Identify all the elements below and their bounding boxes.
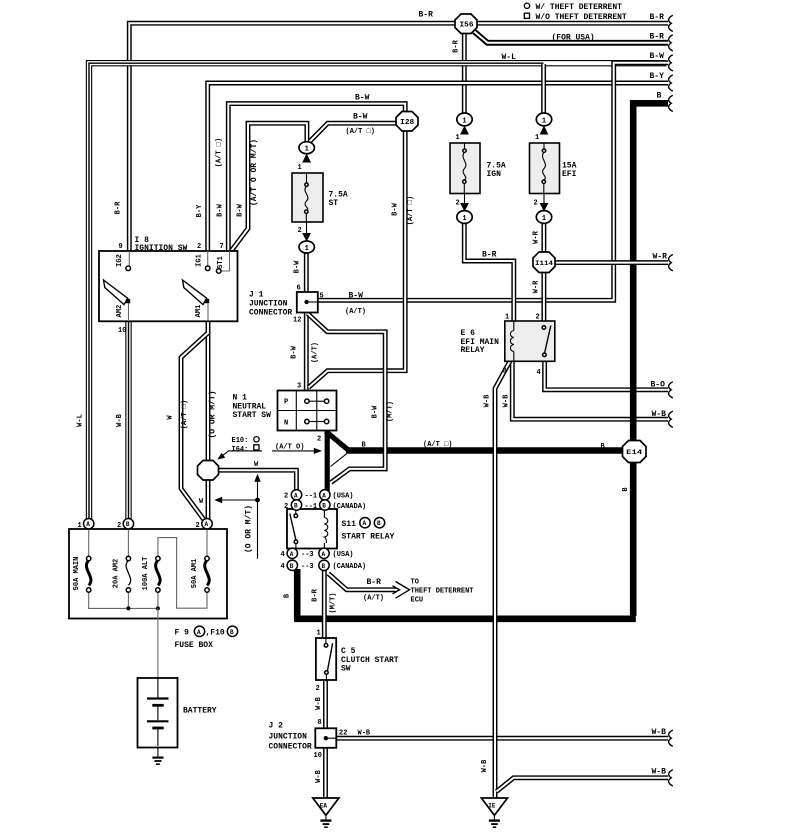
svg-text:CONNECTOR: CONNECTOR [269,743,312,752]
svg-text:B-W: B-W [392,202,400,215]
fuse box terminal 2B [117,519,134,531]
connector oval 1 above IGN fuse [457,113,472,126]
svg-text:(FOR USA): (FOR USA) [552,33,595,42]
wire W-R from fuse 15A EFI through I114 to E6 pin 2 [541,223,546,321]
arrow into ST fuse top connector [302,154,311,163]
octagon connector I114 [533,252,555,273]
svg-text:IGNITION SW: IGNITION SW [135,244,188,253]
fuse 20A AM2 [126,556,130,560]
wire B-Y from ignition switch IG1 to right edge [208,83,668,268]
start relay connector 2A [291,490,301,500]
svg-text:1: 1 [298,164,302,172]
wire B-R from I56 down to fuse 7.5A IGN [462,32,467,113]
fuse box F9/F10 [69,529,227,619]
svg-text:B-W: B-W [217,203,225,216]
svg-text:AM2: AM2 [116,305,124,318]
svg-text:THEFT DETERRENT: THEFT DETERRENT [411,588,474,596]
svg-text:A: A [86,521,90,528]
svg-text:E10:: E10: [232,437,249,445]
svg-text:1: 1 [305,245,309,253]
svg-text:9: 9 [119,243,123,251]
svg-text:B-R: B-R [115,201,123,214]
svg-text:B-W: B-W [349,292,364,301]
svg-text:IG2: IG2 [116,254,124,267]
svg-text:B: B [126,521,130,528]
svg-text:B-O: B-O [651,381,666,390]
ignition sw IG2 terminal [128,251,130,266]
right edge terminator B-O [669,382,673,398]
start relay connector 3B [319,560,329,570]
svg-text:2: 2 [534,200,538,208]
svg-text:W-B: W-B [652,768,667,777]
svg-text:(M/T): (M/T) [330,592,338,613]
svg-text:4: 4 [281,551,285,559]
svg-text:(O OR M/T): (O OR M/T) [245,505,254,553]
svg-text:B-W: B-W [353,113,368,122]
svg-text:W-B: W-B [116,413,124,426]
svg-text:8: 8 [318,719,322,727]
right edge terminator B-Y [669,75,673,91]
svg-text:(A/T): (A/T) [312,342,320,363]
wire W-B 22 from J2 to right edge [336,736,669,741]
wire W from junction octagon to start relay 2A [216,470,296,491]
fuse box internal wire 50A AM1 to 100A ALT top [206,529,208,556]
svg-text:2: 2 [316,685,320,693]
N1 neutral start sw box [278,391,337,431]
battery plates [157,678,159,698]
svg-text:B: B [290,563,294,570]
annotation arrow E10/I64 to junction octagon [217,451,262,460]
label S11 A B START RELAY [342,518,395,542]
right edge terminator W-R [669,255,673,271]
wire W-B from E6 pin 3 to ground IE [495,361,510,798]
svg-text:6: 6 [297,285,301,293]
svg-text:B: B [294,503,298,510]
svg-text:1: 1 [456,134,460,142]
svg-text:--3: --3 [301,563,314,571]
svg-text:CLUTCH START: CLUTCH START [341,656,399,665]
svg-text:J 2: J 2 [269,722,284,731]
svg-text:I114: I114 [535,260,553,267]
svg-text:C 5: C 5 [341,647,356,656]
svg-text:(A/T O OR M/T): (A/T O OR M/T) [250,139,259,206]
wire W-B from E6 pin 3 to right edge [512,360,668,419]
wire B-R from I56 to right edge [475,21,668,26]
svg-text:(CANADA): (CANADA) [333,503,367,511]
fuse box terminal 2A [196,519,213,531]
ignition switch I8 box [99,251,238,321]
svg-text:P: P [284,399,288,407]
svg-text:ST: ST [329,199,339,208]
ground EA [313,798,339,827]
arrow into ST fuse bottom connector [302,233,311,242]
svg-text:1: 1 [317,630,321,638]
svg-text:2: 2 [298,227,302,235]
svg-text:1: 1 [542,117,546,125]
battery to ground wire [157,746,159,757]
battery box [138,678,178,748]
svg-text:B-W: B-W [650,52,665,61]
wire B-W (A/T) from J1 pin 12 to N1 pin 3 [304,312,309,392]
svg-text:W-R: W-R [653,253,668,262]
svg-text:B: B [322,563,326,570]
svg-text:W-B: W-B [484,394,492,407]
svg-text:NEUTRAL: NEUTRAL [233,402,267,411]
fuse 50A MAIN [87,556,91,560]
svg-text:JUNCTION: JUNCTION [269,733,308,742]
octagon connector I56 [455,14,477,34]
svg-text:EA: EA [320,803,328,810]
svg-text:A: A [322,492,326,499]
svg-text:A: A [197,629,201,636]
svg-text:B-R: B-R [419,11,434,20]
wire B-R (M/T) from start relay 3B to clutch start sw C5 [322,569,327,639]
svg-text:2: 2 [456,200,460,208]
arrow into IGN fuse top connector [460,126,469,135]
battery ground symbol [152,756,163,758]
svg-text:B-R: B-R [453,39,461,52]
svg-text:10: 10 [118,327,126,335]
right edge terminator W-B ground [669,770,673,786]
svg-text:SW: SW [341,665,351,674]
wire B-W (A/T box) ignition sw ST1 to I28 top [228,104,405,250]
svg-text:(A/T □): (A/T □) [216,138,224,167]
J2 junction connector box [315,728,336,748]
start relay connector 2B [291,500,301,510]
start relay connector 3A [319,548,329,558]
wire W-L drop to fuse 15A EFI [541,64,546,113]
fuse 7.5A IGN box [450,143,480,194]
start relay connector 4A [287,548,297,558]
wire B-R (A/T) branch to theft deterrent ECU arrow [328,574,409,599]
svg-text:RELAY: RELAY [461,346,485,355]
svg-text:ST1: ST1 [217,256,225,269]
svg-text:(O OR M/T): (O OR M/T) [209,390,218,438]
wire fuse ST bottom to connector [306,222,308,238]
wire W-R from I114 to right edge [554,260,668,265]
svg-text:2: 2 [117,522,121,530]
start relay connector 1A [320,490,330,500]
S11 relay coil [323,509,325,549]
svg-text:(A/T O): (A/T O) [275,444,304,452]
arrow into EFI fuse top connector [540,126,549,135]
svg-text:(CANADA): (CANADA) [333,563,367,571]
svg-text:W/ THEFT DETERRENT: W/ THEFT DETERRENT [536,3,623,12]
svg-text:1: 1 [462,215,466,223]
wire W-B from J2 pin 10 to ground EA [323,747,328,798]
start relay connector 1B [320,500,330,510]
svg-text:1: 1 [462,117,466,125]
right edge terminator B [669,95,673,111]
wire B thick from N1 pin 2 down to start relay 1A [325,431,330,492]
svg-text:W-B: W-B [652,728,667,737]
ignition sw ST1 terminal [221,251,230,271]
ignition sw AM2 contact wedge [104,280,128,305]
annotation arrow A/T O to N1 pin 2 wire [272,448,322,454]
start relay connector 4B [287,560,297,570]
svg-text:EFI: EFI [562,170,577,179]
svg-text:W-B: W-B [481,759,489,772]
ignition sw IG1 terminal [207,251,209,266]
svg-text:IG1: IG1 [196,254,204,267]
svg-text:(M/T): (M/T) [387,401,395,422]
svg-text:W-L: W-L [77,414,85,427]
wire B thick A/T from N1 pin 2 funnel to E14 [326,431,624,466]
svg-text:50A AM1: 50A AM1 [191,559,199,588]
wire B-O from E6 pin 4 to right edge [545,360,668,390]
svg-text:B-W: B-W [291,345,299,358]
svg-text:A: A [363,520,367,527]
wire W-L / B-W top horizontal from left corner to right edge [89,63,667,519]
svg-text:B-R: B-R [482,250,497,259]
right edge terminator B-W [669,55,673,71]
wire W (O OR M/T) from ignition sw AM1 to junction octagon [206,302,211,461]
svg-text:(A/T): (A/T) [345,308,366,316]
svg-text:B-W: B-W [237,203,245,216]
svg-text:B: B [230,629,234,636]
svg-text:W-B: W-B [503,394,511,407]
svg-text:W-R: W-R [533,280,541,293]
connector oval 1 above EFI fuse [536,113,551,126]
wire B-W from ST fuse junction diagonal to I28 left [310,123,398,141]
svg-text:B-R: B-R [312,588,320,601]
wire fuse EFI bottom to connector [543,194,545,209]
wire B-W from I28 down to N1 pin 3 [309,130,406,388]
svg-text:A: A [290,551,294,558]
svg-text:(USA): (USA) [333,551,354,559]
svg-text:N 1: N 1 [233,394,248,403]
fuse 100A ALT [156,556,160,560]
svg-text:(A/T □): (A/T □) [181,400,189,429]
ignition sw AM1 contact wedge [183,280,207,305]
svg-text:2: 2 [536,314,540,322]
svg-text:1: 1 [535,134,539,142]
svg-text:W-B: W-B [315,696,323,709]
svg-text:AM1: AM1 [195,305,203,318]
svg-text:W-B: W-B [652,410,667,419]
right edge terminator W-B [669,411,673,427]
svg-text:5: 5 [320,293,324,301]
wire W-B from right edge to ground IE [497,778,669,792]
fuse box internal wire terminal 2B to bus [127,529,129,556]
connector oval 1 below EFI fuse [536,211,551,224]
E6 relay switch [542,326,546,330]
svg-text:JUNCTION: JUNCTION [249,300,288,309]
svg-text:--1: --1 [305,503,318,511]
svg-text:W-L: W-L [502,53,517,62]
svg-text:1: 1 [305,146,309,154]
svg-text:B-Y: B-Y [196,204,204,217]
svg-text:TO: TO [411,579,419,587]
fuse 15A EFI box [530,143,560,194]
wire B thick from right edge down through E14 [633,103,668,441]
svg-text:2: 2 [284,503,288,511]
wire W-B from clutch start sw C5 to J2 [323,679,328,729]
svg-text:7: 7 [220,243,224,251]
svg-text:B-W: B-W [294,260,302,273]
wire W (A/T box) branch from AM1 wire to fuse box 2A [181,333,208,521]
right edge terminator B-R FOR USA [669,35,673,51]
svg-text:B-W: B-W [372,405,380,418]
svg-text:(A/T □): (A/T □) [407,196,415,225]
wire B-R from top-left corner to I56 [129,23,456,268]
svg-text:1: 1 [78,522,82,530]
legend W/ THEFT DETERRENT [524,3,622,12]
svg-text:ECU: ECU [411,597,424,605]
S11 switch [294,514,298,518]
svg-text:20A AM2: 20A AM2 [113,559,121,588]
C5 switch [325,638,327,643]
fuse 50A AM1 [205,556,209,560]
svg-text:START SW: START SW [233,411,272,420]
label F 9 A F10 B FUSE BOX [175,626,238,650]
svg-text:I28: I28 [400,119,414,127]
svg-text:W-B: W-B [315,769,323,782]
wire B-W (A/T O OR M/T) ignition sw ST1 to ST fuse and I28 [232,123,307,250]
svg-text:BATTERY: BATTERY [183,707,217,716]
E6 relay coil [513,321,515,361]
fuse box terminal 1A [78,519,94,531]
wire fuse IGN bottom to connector [464,194,466,209]
svg-text:3: 3 [297,383,301,391]
svg-text:B: B [322,503,326,510]
octagon connector E14 [623,441,647,463]
svg-text:A: A [294,492,298,499]
svg-text:B-R: B-R [650,13,665,22]
svg-text:B: B [377,520,381,527]
wire B-R (FOR USA) from I56 to right edge [473,31,668,43]
svg-text:B: B [657,92,662,101]
svg-text:J 1: J 1 [249,291,264,300]
svg-text:,F10: ,F10 [206,629,225,638]
wire B thick from E14 down and left to start relay 4B [294,461,636,621]
right edge terminator B-R [669,15,673,31]
wire W from junction octagon down to fuse box 2A [206,478,211,520]
svg-text:--3: --3 [301,551,314,559]
wire B-W (M/T) from J1 pin 12 to N1 pin2 node [308,314,386,483]
svg-text:100A ALT: 100A ALT [142,557,150,591]
J1 junction connector box [297,292,318,313]
svg-text:W-B: W-B [358,729,371,737]
svg-text:50A MAIN: 50A MAIN [73,557,81,591]
svg-text:3: 3 [503,368,507,376]
octagon connector I28 [396,112,418,132]
svg-text:E14: E14 [626,449,643,456]
fuse box junction dot 2B bus [126,606,130,610]
svg-text:B-R: B-R [367,578,382,587]
arrow into IGN fuse bottom connector [460,203,469,212]
E6 EFI main relay box [505,321,555,361]
wire B-W from J1 pin 5 up to right edge [317,63,668,300]
junction octagon E10/I64 [198,461,219,481]
svg-text:22: 22 [339,729,347,737]
svg-text:B-W: B-W [355,93,370,102]
svg-text:W-R: W-R [533,230,541,243]
svg-text:10: 10 [314,752,322,760]
svg-text:START RELAY: START RELAY [342,533,395,542]
svg-text:(USA): (USA) [333,493,354,501]
right edge terminator W-B 22 [669,730,673,746]
ground IE [481,798,507,827]
svg-text:--1: --1 [305,493,318,501]
svg-text:B-R: B-R [650,33,665,42]
connector oval 1 above ST fuse [299,142,314,154]
svg-text:1: 1 [542,215,546,223]
svg-text:IGN: IGN [487,170,502,179]
connector oval 1 below ST fuse [299,241,314,253]
svg-text:CONNECTOR: CONNECTOR [249,308,292,317]
svg-text:2: 2 [317,436,321,444]
wire from fuse box to battery [157,608,159,679]
svg-text:12: 12 [293,317,301,325]
svg-text:FUSE BOX: FUSE BOX [175,641,214,650]
svg-text:S11: S11 [342,520,357,529]
S11 start relay box [287,509,337,549]
svg-text:(A/T □): (A/T □) [346,128,375,136]
wire W-B from ignition sw AM2 to fuse box 2B [125,302,131,520]
svg-text:4: 4 [281,563,285,571]
annotation arrow O OR M/T [214,474,261,559]
svg-text:I56: I56 [460,22,474,30]
svg-text:2: 2 [284,493,288,501]
fuse box junction dot ALT bus [156,606,160,610]
wire B-R from fuse 7.5A IGN to E6 pin 1 [464,223,514,321]
svg-text:N: N [284,420,288,428]
fuse box internal wire 100A ALT to bus and battery [157,593,159,609]
svg-text:IE: IE [488,803,496,810]
svg-text:I64:: I64: [232,446,249,454]
svg-text:(A/T □): (A/T □) [423,441,452,449]
svg-text:2: 2 [197,243,201,251]
C5 clutch start sw box [316,638,336,680]
svg-text:B-Y: B-Y [650,72,665,81]
svg-text:F 9: F 9 [175,629,190,638]
fuse 7.5A ST box [292,173,323,222]
svg-text:A: A [205,521,209,528]
svg-text:E 6: E 6 [461,329,476,338]
svg-text:1: 1 [505,314,509,322]
fuse box internal wire terminal 1A to bus [88,529,90,556]
svg-text:4: 4 [537,369,541,377]
svg-text:(A/T): (A/T) [363,595,384,603]
arrow into EFI fuse bottom connector [540,203,549,212]
svg-text:A: A [322,551,326,558]
connector oval 1 below IGN fuse [457,211,472,224]
wire B-W from J1 pin 6 to ST fuse connector [304,251,309,293]
legend W/O THEFT DETERRENT [524,13,627,22]
